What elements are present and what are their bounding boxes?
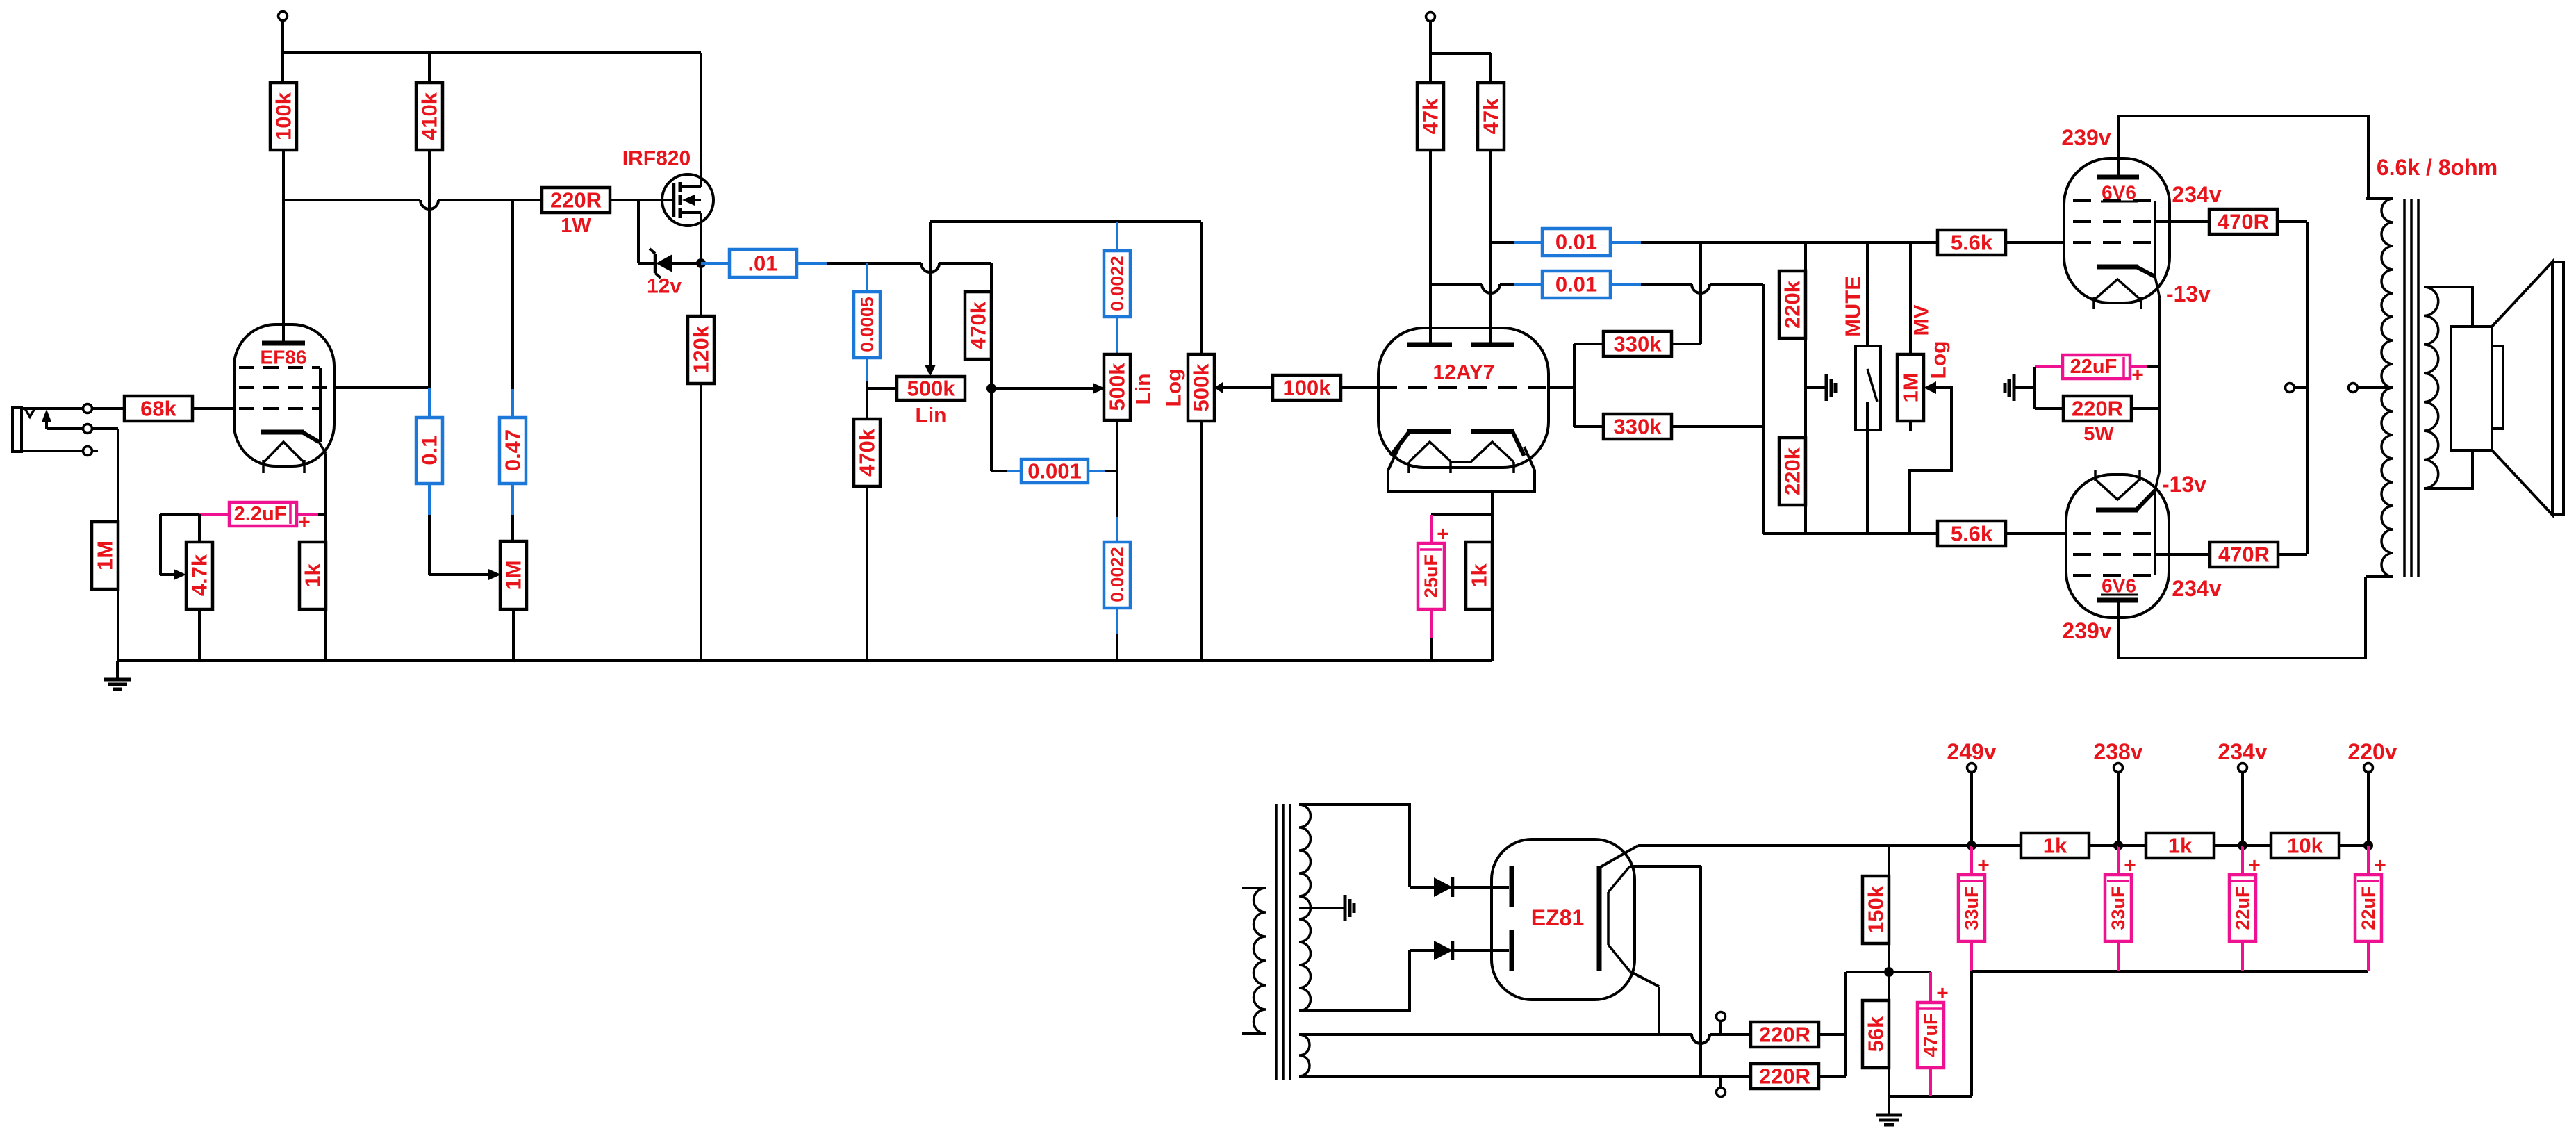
wire 47k2 to plate — [1489, 150, 1492, 343]
svg-text:+: + — [2248, 855, 2261, 877]
wire 330k2 right — [1671, 425, 1763, 428]
12AY7 cathode bars — [1407, 429, 1451, 434]
wire 6.3v lead2 — [1299, 1075, 1751, 1078]
potentiometer 1M MV — [1909, 242, 1912, 354]
potentiometer 1M bias — [500, 541, 527, 609]
svg-text:238v: 238v — [2093, 739, 2142, 764]
resistor 330k lower — [1603, 414, 1671, 439]
wire MV wiper — [1924, 381, 1936, 394]
wire 6.3v lead1b — [1721, 1033, 1751, 1036]
resistor 470k tone upper — [965, 292, 991, 359]
wire 470R2 right — [2278, 553, 2307, 556]
svg-text:56k: 56k — [1864, 1016, 1888, 1052]
capacitor 0.0005 — [866, 263, 868, 292]
svg-text:6V6: 6V6 — [2102, 575, 2136, 597]
wire EZ81 cathode out — [1599, 846, 1638, 868]
wire jack to 1M — [117, 429, 119, 522]
resistor 220R 1W gate stopper — [542, 188, 610, 213]
wire caps ground rail — [1972, 970, 2368, 973]
wire 10k to node — [2338, 844, 2368, 847]
svg-text:220R: 220R — [550, 188, 602, 213]
resistor 5.6k upper grid — [1938, 230, 2006, 255]
wire 0.01 upper run — [1641, 241, 1938, 244]
wire 220R5W leads — [2035, 407, 2063, 410]
wire grid to 100k — [1341, 386, 1378, 389]
speaker driver — [2451, 327, 2492, 450]
MOSFET IRF820 U1 — [662, 174, 713, 226]
EF86 cathode — [261, 430, 304, 435]
capacitor 2.2uF bypass — [229, 502, 297, 526]
terminal jack ring — [83, 424, 92, 434]
zener diode 12v — [654, 254, 657, 273]
wire top rail B+ to MOSFET drain — [283, 51, 701, 54]
wire 47uF top — [1929, 972, 1932, 1003]
6V6 upper heater — [2094, 279, 2141, 300]
svg-text:234v: 234v — [2172, 182, 2221, 207]
svg-text:330k: 330k — [1614, 332, 1662, 356]
wire node to 47uF — [1889, 971, 1931, 973]
ground mid 220k — [1806, 386, 1826, 389]
svg-text:-13v: -13v — [2162, 472, 2206, 497]
potentiometer 500k Log — [1188, 354, 1214, 421]
capacitor 25uF cathode bypass — [1418, 543, 1444, 609]
capacitor 0.01 upper coupling — [1491, 241, 1514, 244]
terminal heater 2 — [1717, 1088, 1726, 1097]
junction dot 234v — [2238, 841, 2247, 850]
svg-text:12AY7: 12AY7 — [1433, 361, 1495, 384]
wire 1M bias wiper arrow — [488, 569, 501, 580]
PT core — [1275, 804, 1278, 1080]
svg-text:+: + — [2374, 855, 2386, 877]
wire screen lower — [2155, 553, 2210, 556]
OT primary top lead — [2366, 197, 2393, 200]
svg-text:220R: 220R — [2072, 397, 2123, 421]
wire 33uF2 bottom — [2117, 941, 2120, 971]
PT 6.3v winding — [1299, 1034, 1310, 1076]
wire 6.3v lead1 — [1299, 1033, 1692, 1036]
wire 220k top — [1804, 242, 1807, 271]
PT HV secondary coil — [1299, 805, 1311, 1011]
6V6 upper cathode — [2097, 265, 2138, 270]
svg-text:25uF: 25uF — [1421, 554, 1442, 598]
wire gnd riser — [1970, 971, 1973, 1096]
svg-text:0.001: 0.001 — [1027, 459, 1082, 484]
wire heater Rs to node — [1819, 1033, 1846, 1036]
svg-text:500k: 500k — [1189, 363, 1214, 412]
wire screen drop vertical — [2306, 222, 2309, 554]
svg-text:410k: 410k — [418, 92, 442, 140]
wire node to 1k2 — [2118, 844, 2147, 847]
terminal 238v — [2114, 764, 2123, 773]
ground symbol PSU — [1888, 1096, 1890, 1115]
resistor 220k lower — [1779, 438, 1806, 505]
wire 330k2 stub — [1574, 425, 1603, 428]
wire B+ to 1k — [1972, 844, 2021, 847]
input jack tip wire — [22, 407, 83, 410]
wire 22uF-220R left link — [2033, 367, 2036, 409]
wire tone mid down — [990, 388, 993, 471]
wire 2.2uF left — [199, 513, 229, 516]
svg-text:4.7k: 4.7k — [188, 554, 212, 596]
resistor 220R 5W — [2063, 396, 2131, 421]
svg-text:470k: 470k — [966, 301, 991, 349]
wire 220k mid — [1804, 338, 1807, 438]
svg-text:1M: 1M — [502, 560, 526, 590]
wire 25uF top — [1430, 515, 1433, 543]
wire 56k to gnd row — [1888, 1068, 1890, 1096]
svg-text:120k: 120k — [689, 325, 713, 374]
speaker cone — [2492, 262, 2552, 515]
svg-text:1k: 1k — [301, 563, 325, 588]
resistor 1k dropper 2 — [2146, 833, 2214, 858]
terminal jack tip — [83, 404, 92, 413]
svg-text:220R: 220R — [1759, 1023, 1810, 1047]
svg-text:220k: 220k — [1781, 280, 1805, 329]
svg-text:MUTE: MUTE — [1841, 276, 1865, 337]
svg-text:+: + — [2124, 855, 2136, 877]
EF86 g3 dashed — [239, 366, 320, 369]
wire 47uF bottom — [1929, 1068, 1932, 1096]
ground bus main — [117, 659, 1492, 662]
OT core — [2403, 199, 2406, 577]
6V6 upper g3 strap — [2154, 201, 2156, 277]
resistor 330k upper — [1603, 331, 1671, 356]
wire 22uF right — [2130, 365, 2147, 368]
svg-text:1k: 1k — [1467, 563, 1492, 588]
wire 22uF4 top — [2367, 846, 2370, 875]
wire 470k to ground bus — [866, 486, 868, 661]
wire 330k1 right up — [1671, 343, 1701, 345]
resistor 1k dropper 1 — [2021, 833, 2089, 858]
resistor 410k screen feed — [416, 83, 443, 150]
wire node to 10k — [2243, 844, 2272, 847]
potentiometer 500k Lin vertical — [1104, 354, 1130, 420]
svg-text:EZ81: EZ81 — [1531, 905, 1584, 930]
terminal B+ 12AY7 — [1426, 13, 1435, 22]
svg-text:470k: 470k — [855, 428, 880, 477]
capacitor 0.01 lower coupling — [1430, 283, 1482, 286]
capacitor 22uF filter 3 — [2229, 875, 2256, 941]
wire 220k bottom — [1804, 505, 1807, 534]
wire node to pot1 — [867, 387, 897, 390]
svg-text:33uF: 33uF — [1961, 886, 1982, 930]
capacitor 22uF cathode — [2035, 365, 2063, 368]
input jack switch arm — [47, 427, 83, 430]
wire 470R1 right — [2277, 220, 2307, 223]
wire source to 120k — [700, 263, 702, 316]
resistor 47k plate 1 — [1417, 83, 1444, 150]
capacitor 22uF box — [2063, 355, 2130, 379]
wire 330k1 stub — [1574, 343, 1603, 345]
ground 22uF — [2014, 386, 2035, 389]
resistor 68k grid stopper — [124, 396, 192, 421]
wire corner down to 470k upper — [990, 263, 993, 292]
wire screen upper — [2155, 220, 2209, 223]
svg-text:+: + — [1977, 855, 1990, 877]
svg-text:0.01: 0.01 — [1555, 230, 1597, 254]
resistor 220R heater 1 — [1751, 1022, 1819, 1047]
EF86 screen dashed — [239, 386, 332, 389]
terminal 249v — [1967, 764, 1976, 773]
svg-text:68k: 68k — [140, 397, 176, 421]
12AY7 base skirt — [1388, 447, 1535, 492]
resistor 470k tone lower — [854, 419, 880, 486]
EZ81 cathode — [1597, 866, 1602, 971]
svg-text:Log: Log — [1163, 369, 1186, 407]
6V6 upper plate — [2097, 175, 2139, 180]
OT secondary coil — [2424, 287, 2438, 488]
terminal heater 1 — [1717, 1012, 1726, 1021]
svg-text:2.2uF: 2.2uF — [234, 503, 287, 525]
svg-text:Lin: Lin — [1132, 374, 1155, 405]
resistor 470R upper screen — [2209, 209, 2277, 234]
wire 22uF3 top — [2241, 846, 2244, 875]
svg-text:0.47: 0.47 — [501, 429, 525, 471]
wire 4.7k to bus — [198, 609, 201, 661]
svg-text:500k: 500k — [907, 377, 956, 401]
svg-text:6.6k / 8ohm: 6.6k / 8ohm — [2377, 155, 2497, 180]
terminal 220v — [2364, 764, 2373, 773]
PT primary leads — [1242, 887, 1266, 889]
wire pot2 down — [1116, 420, 1118, 517]
wire 1k2 to node — [2213, 844, 2243, 847]
svg-text:22uF: 22uF — [2232, 886, 2253, 930]
svg-text:22uF: 22uF — [2358, 886, 2379, 930]
wire gate branch down to zener — [637, 200, 640, 263]
svg-text:5W: 5W — [2083, 423, 2114, 445]
resistor 56k bleeder — [1863, 1000, 1889, 1068]
svg-text:47k: 47k — [1419, 98, 1443, 134]
input jack sleeve wire — [22, 450, 83, 452]
junction dot B+ 249v — [1967, 841, 1976, 850]
svg-text:Log: Log — [1928, 341, 1951, 379]
EF86 g3 strap — [319, 368, 322, 442]
rail tone top — [930, 220, 1201, 223]
svg-text:12v: 12v — [647, 275, 682, 298]
junction dot 238v — [2113, 841, 2123, 850]
svg-text:100k: 100k — [272, 92, 296, 140]
wire EF86 plate to 100k and rail2 junction — [282, 150, 285, 341]
svg-text:22uF: 22uF — [2070, 356, 2117, 378]
wire 410k down to screen node — [428, 150, 431, 388]
6V6 lower heater — [2095, 479, 2140, 500]
ground symbol main — [116, 661, 119, 679]
wire 4.7k wiper — [160, 573, 175, 576]
wire 47k branch — [1430, 52, 1491, 55]
svg-text:0.0022: 0.0022 — [1107, 256, 1128, 311]
PT HV top lead — [1299, 805, 1410, 887]
wire MOSFET drain — [700, 53, 702, 187]
capacitor 0.47 — [511, 200, 514, 418]
tube EF86 envelope — [234, 324, 334, 466]
svg-text:0.01: 0.01 — [1555, 272, 1597, 297]
resistor 150k bleeder — [1863, 876, 1889, 943]
wire 220R to gate — [610, 199, 672, 201]
capacitor 47uF bias filter — [1917, 1003, 1944, 1068]
svg-text:330k: 330k — [1614, 415, 1662, 439]
capacitor 0.001 — [1007, 470, 1021, 472]
resistor 1k EF86 cathode — [299, 542, 326, 609]
resistor 100k EF86 plate load — [270, 83, 297, 150]
svg-text:MV: MV — [1910, 305, 1933, 336]
capacitor 0.0022 lower — [1116, 517, 1118, 542]
wire 22uF3 bottom — [2241, 941, 2244, 971]
6V6 lower g3 strap — [2154, 490, 2156, 575]
svg-text:470R: 470R — [2218, 210, 2269, 234]
wire cathode vertical — [2158, 299, 2161, 470]
tube EZ81 envelope — [1492, 839, 1635, 1000]
svg-text:234v: 234v — [2218, 739, 2267, 764]
wire grid out right — [1549, 386, 1574, 389]
svg-text:.01: .01 — [748, 251, 777, 276]
svg-text:47k: 47k — [1479, 98, 1503, 134]
resistor 10k dropper — [2271, 833, 2339, 858]
svg-text:470R: 470R — [2218, 543, 2270, 567]
switch MUTE — [1866, 242, 1869, 369]
svg-text:220v: 220v — [2347, 739, 2397, 764]
tube 12AY7 envelope — [1378, 328, 1549, 468]
resistor 100k 12AY7 grid — [1273, 375, 1341, 400]
svg-text:+: + — [1936, 982, 1949, 1005]
wire lower plate to OT — [2118, 577, 2366, 658]
potentiometer 500k Lin horizontal — [897, 377, 965, 400]
wire 1M to bus — [117, 589, 119, 661]
wire pot3 down to bus — [1200, 421, 1203, 661]
wire down to lower grid bus — [1762, 284, 1765, 534]
junction dot source-zener — [696, 258, 706, 268]
capacitor 0.01 lower box — [1514, 283, 1542, 286]
12AY7 grid dashed — [1378, 386, 1549, 389]
PT HV bottom lead — [1299, 950, 1410, 1011]
ground row PSU — [1889, 1095, 1972, 1098]
wire 1k1 to node — [2089, 844, 2118, 847]
svg-text:249v: 249v — [1947, 739, 1996, 764]
wire EF86 cathode down — [324, 454, 327, 542]
wire 120k to ground bus — [700, 384, 702, 661]
svg-text:5.6k: 5.6k — [1951, 231, 1993, 255]
wire 33uF1 bottom — [1970, 941, 1973, 971]
svg-text:234v: 234v — [2172, 576, 2221, 601]
svg-text:1k: 1k — [2168, 834, 2193, 858]
svg-text:100k: 100k — [1283, 376, 1332, 400]
diode D1 — [1410, 886, 1434, 889]
capacitor 22uF filter 4 — [2355, 875, 2381, 941]
wire 1k EF86 to bus — [324, 609, 327, 661]
resistor 1k 12AY7 cathode — [1466, 542, 1492, 609]
resistor 1M input — [92, 522, 118, 589]
svg-text:-13v: -13v — [2166, 281, 2211, 306]
6V6 upper grids dashed — [2073, 199, 2152, 202]
6V6 lower plate — [2097, 598, 2138, 603]
resistor 220R heater 2 — [1751, 1064, 1819, 1089]
wire 25uF bottom — [1430, 609, 1433, 638]
wire 68k to grid — [192, 407, 234, 410]
capacitor 0.1 — [428, 388, 431, 418]
wire 410k top — [428, 53, 431, 83]
PT center tap ground — [1299, 907, 1345, 909]
capacitor .01 coupling — [701, 262, 729, 265]
12AY7 heaters — [1409, 442, 1451, 462]
wire pot1 wiper drop — [929, 222, 932, 365]
wire B+ rail 6V6 — [2118, 116, 2368, 199]
wire rail to pot3 — [1200, 222, 1203, 354]
svg-text:33uF: 33uF — [2108, 886, 2129, 930]
wire 1M bias to bus — [512, 609, 515, 661]
wire 5.6k2 to grid — [2006, 532, 2066, 535]
wire pot3 wiper from 100k — [1222, 386, 1273, 389]
svg-text:220k: 220k — [1781, 447, 1805, 495]
6V6 lower grids dashed — [2073, 532, 2152, 535]
svg-text:239v: 239v — [2062, 618, 2111, 643]
svg-text:220R: 220R — [1759, 1064, 1810, 1089]
12AY7 plate bars — [1407, 343, 1452, 347]
terminal B+ EF86 stage — [279, 12, 288, 21]
svg-text:1M: 1M — [1899, 372, 1923, 402]
wire tone mid to pot2 wiper — [991, 387, 1094, 390]
capacitor 0.0022 upper — [1116, 222, 1118, 251]
tube 6V6 lower envelope — [2066, 475, 2169, 618]
junction dot 220v — [2363, 841, 2373, 850]
terminal UL tap circle left — [2286, 384, 2295, 393]
EZ81 heater — [1607, 892, 1610, 945]
svg-text:+: + — [1437, 523, 1449, 546]
wire EZ81 heater pin top — [1630, 865, 1701, 868]
wire 330k node — [1573, 344, 1576, 427]
junction dot 150k-56k — [1884, 967, 1894, 977]
wire 12AY7 cathode — [1491, 492, 1494, 515]
tube 6V6 upper envelope — [2064, 158, 2170, 303]
wire 22uF4 bottom — [2367, 941, 2370, 971]
wire 0.1 to 1M wiper — [428, 515, 431, 575]
terminal jack sleeve — [83, 447, 92, 456]
terminal OT tap circle — [2349, 384, 2358, 393]
wire 47k1 to plate — [1429, 150, 1432, 343]
resistor 470R lower screen — [2210, 542, 2278, 567]
PT primary coil — [1254, 888, 1266, 1034]
wire 5.6k1 to grid — [2006, 241, 2064, 244]
EF86 plate — [262, 341, 305, 346]
input jack body — [13, 407, 22, 452]
wire 4.7k top feed — [198, 514, 201, 542]
svg-text:10k: 10k — [2287, 834, 2323, 858]
svg-text:1M: 1M — [93, 541, 117, 570]
wire screen to 410k node — [334, 386, 429, 389]
resistor 220k upper — [1779, 271, 1806, 338]
wire 150k top — [1888, 846, 1890, 876]
wire rail2 gate feed — [283, 199, 420, 201]
wire EZ81 heater pin bottom — [1630, 971, 1659, 987]
OT primary bottom lead — [2366, 575, 2393, 578]
wire 33uF1 top — [1970, 846, 1973, 875]
svg-text:500k: 500k — [1105, 363, 1130, 411]
capacitor 33uF filter 1 — [1958, 875, 1985, 941]
svg-text:1W: 1W — [561, 215, 591, 237]
wire .01 to tone stack — [827, 262, 921, 265]
EZ81 plates — [1510, 866, 1514, 907]
junction dot tone mid — [986, 384, 996, 393]
terminal 234v — [2238, 764, 2247, 773]
svg-text:EF86: EF86 — [261, 347, 307, 368]
resistor 47k plate 2 — [1478, 83, 1504, 150]
svg-text:5.6k: 5.6k — [1951, 522, 1993, 546]
svg-text:0.0005: 0.0005 — [857, 297, 877, 352]
EF86 heater — [263, 442, 304, 463]
potentiometer 4.7k — [186, 542, 213, 609]
svg-text:IRF820: IRF820 — [622, 147, 691, 170]
svg-text:239v: 239v — [2061, 125, 2111, 150]
capacitor 33uF filter 2 — [2105, 875, 2131, 941]
6V6 lower cathode — [2096, 508, 2138, 513]
